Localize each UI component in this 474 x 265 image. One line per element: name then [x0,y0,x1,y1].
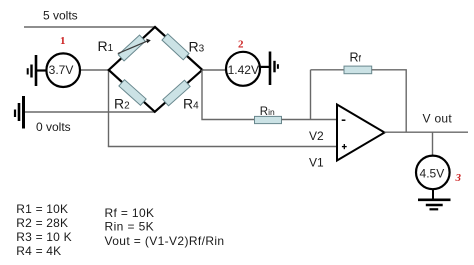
svg-text:Rf: Rf [350,51,362,65]
wire V2 node up to feedback [310,70,312,120]
bridge diamond wires [109,27,203,112]
svg-text:4.5V: 4.5V [420,166,445,180]
resistor R3 [162,34,189,60]
wire bridge right node to voltmeter 2 [202,69,226,71]
wire op-amp output [385,131,469,133]
svg-text:2: 2 [238,39,244,51]
svg-text:Rf = 10K: Rf = 10K [105,206,155,220]
svg-text:V2: V2 [309,129,324,143]
wire bridge left node down to V1 line [108,70,110,147]
wire bridge right node down to Rin [202,70,255,120]
resistor R1 (variable) [118,35,145,61]
svg-text:Vout = (V1-V2)Rf/Rin: Vout = (V1-V2)Rf/Rin [105,234,225,248]
ground (voltmeter 3) [418,190,451,209]
svg-text:R3 = 10 K: R3 = 10 K [16,230,72,244]
wire output down to voltmeter 3 [432,132,434,155]
wire feedback left segment [311,69,345,71]
svg-text:1.42V: 1.42V [228,63,259,77]
svg-text:R4 = 4K: R4 = 4K [16,244,61,258]
svg-text:0 volts: 0 volts [36,120,71,134]
wire V1 (non-inverting input) [108,146,337,148]
op-amp U1 [337,105,385,161]
svg-text:V out: V out [423,112,453,126]
wire voltmeter 1 to bridge left node [80,69,110,71]
voltmeter 2 : 1.42V [226,52,260,86]
voltmeter 3 : 4.5V [416,156,450,190]
wire 5V supply rail [24,26,155,28]
wire Rin to inverting input V2 [282,119,338,121]
resistor R4 [163,80,190,106]
arrow across R1 [118,41,148,54]
svg-text:R2 = 28K: R2 = 28K [16,216,68,230]
svg-text:R1 = 10K: R1 = 10K [16,202,68,216]
voltmeter 1 : 3.7V [46,53,80,87]
svg-text:Rin: Rin [260,106,275,118]
resistor Rin [255,116,282,123]
svg-text:Rin = 5K: Rin = 5K [105,220,155,234]
svg-text:1: 1 [60,35,66,47]
resistor R2 [119,80,146,106]
svg-text:5 volts: 5 volts [43,8,78,22]
wire 0V rail to bridge bottom node [25,111,156,113]
ground (voltmeter 2) [261,52,278,86]
ground (voltmeter 1) [28,55,46,86]
ground (0 volts rail) [15,96,24,129]
op-amp minus sign [342,119,346,121]
wire feedback right segment [372,70,407,132]
svg-text:3.7V: 3.7V [49,63,74,77]
svg-text:V1: V1 [309,156,324,170]
op-amp plus sign [342,146,347,148]
resistor Rf [344,66,372,74]
svg-text:3: 3 [455,172,462,184]
